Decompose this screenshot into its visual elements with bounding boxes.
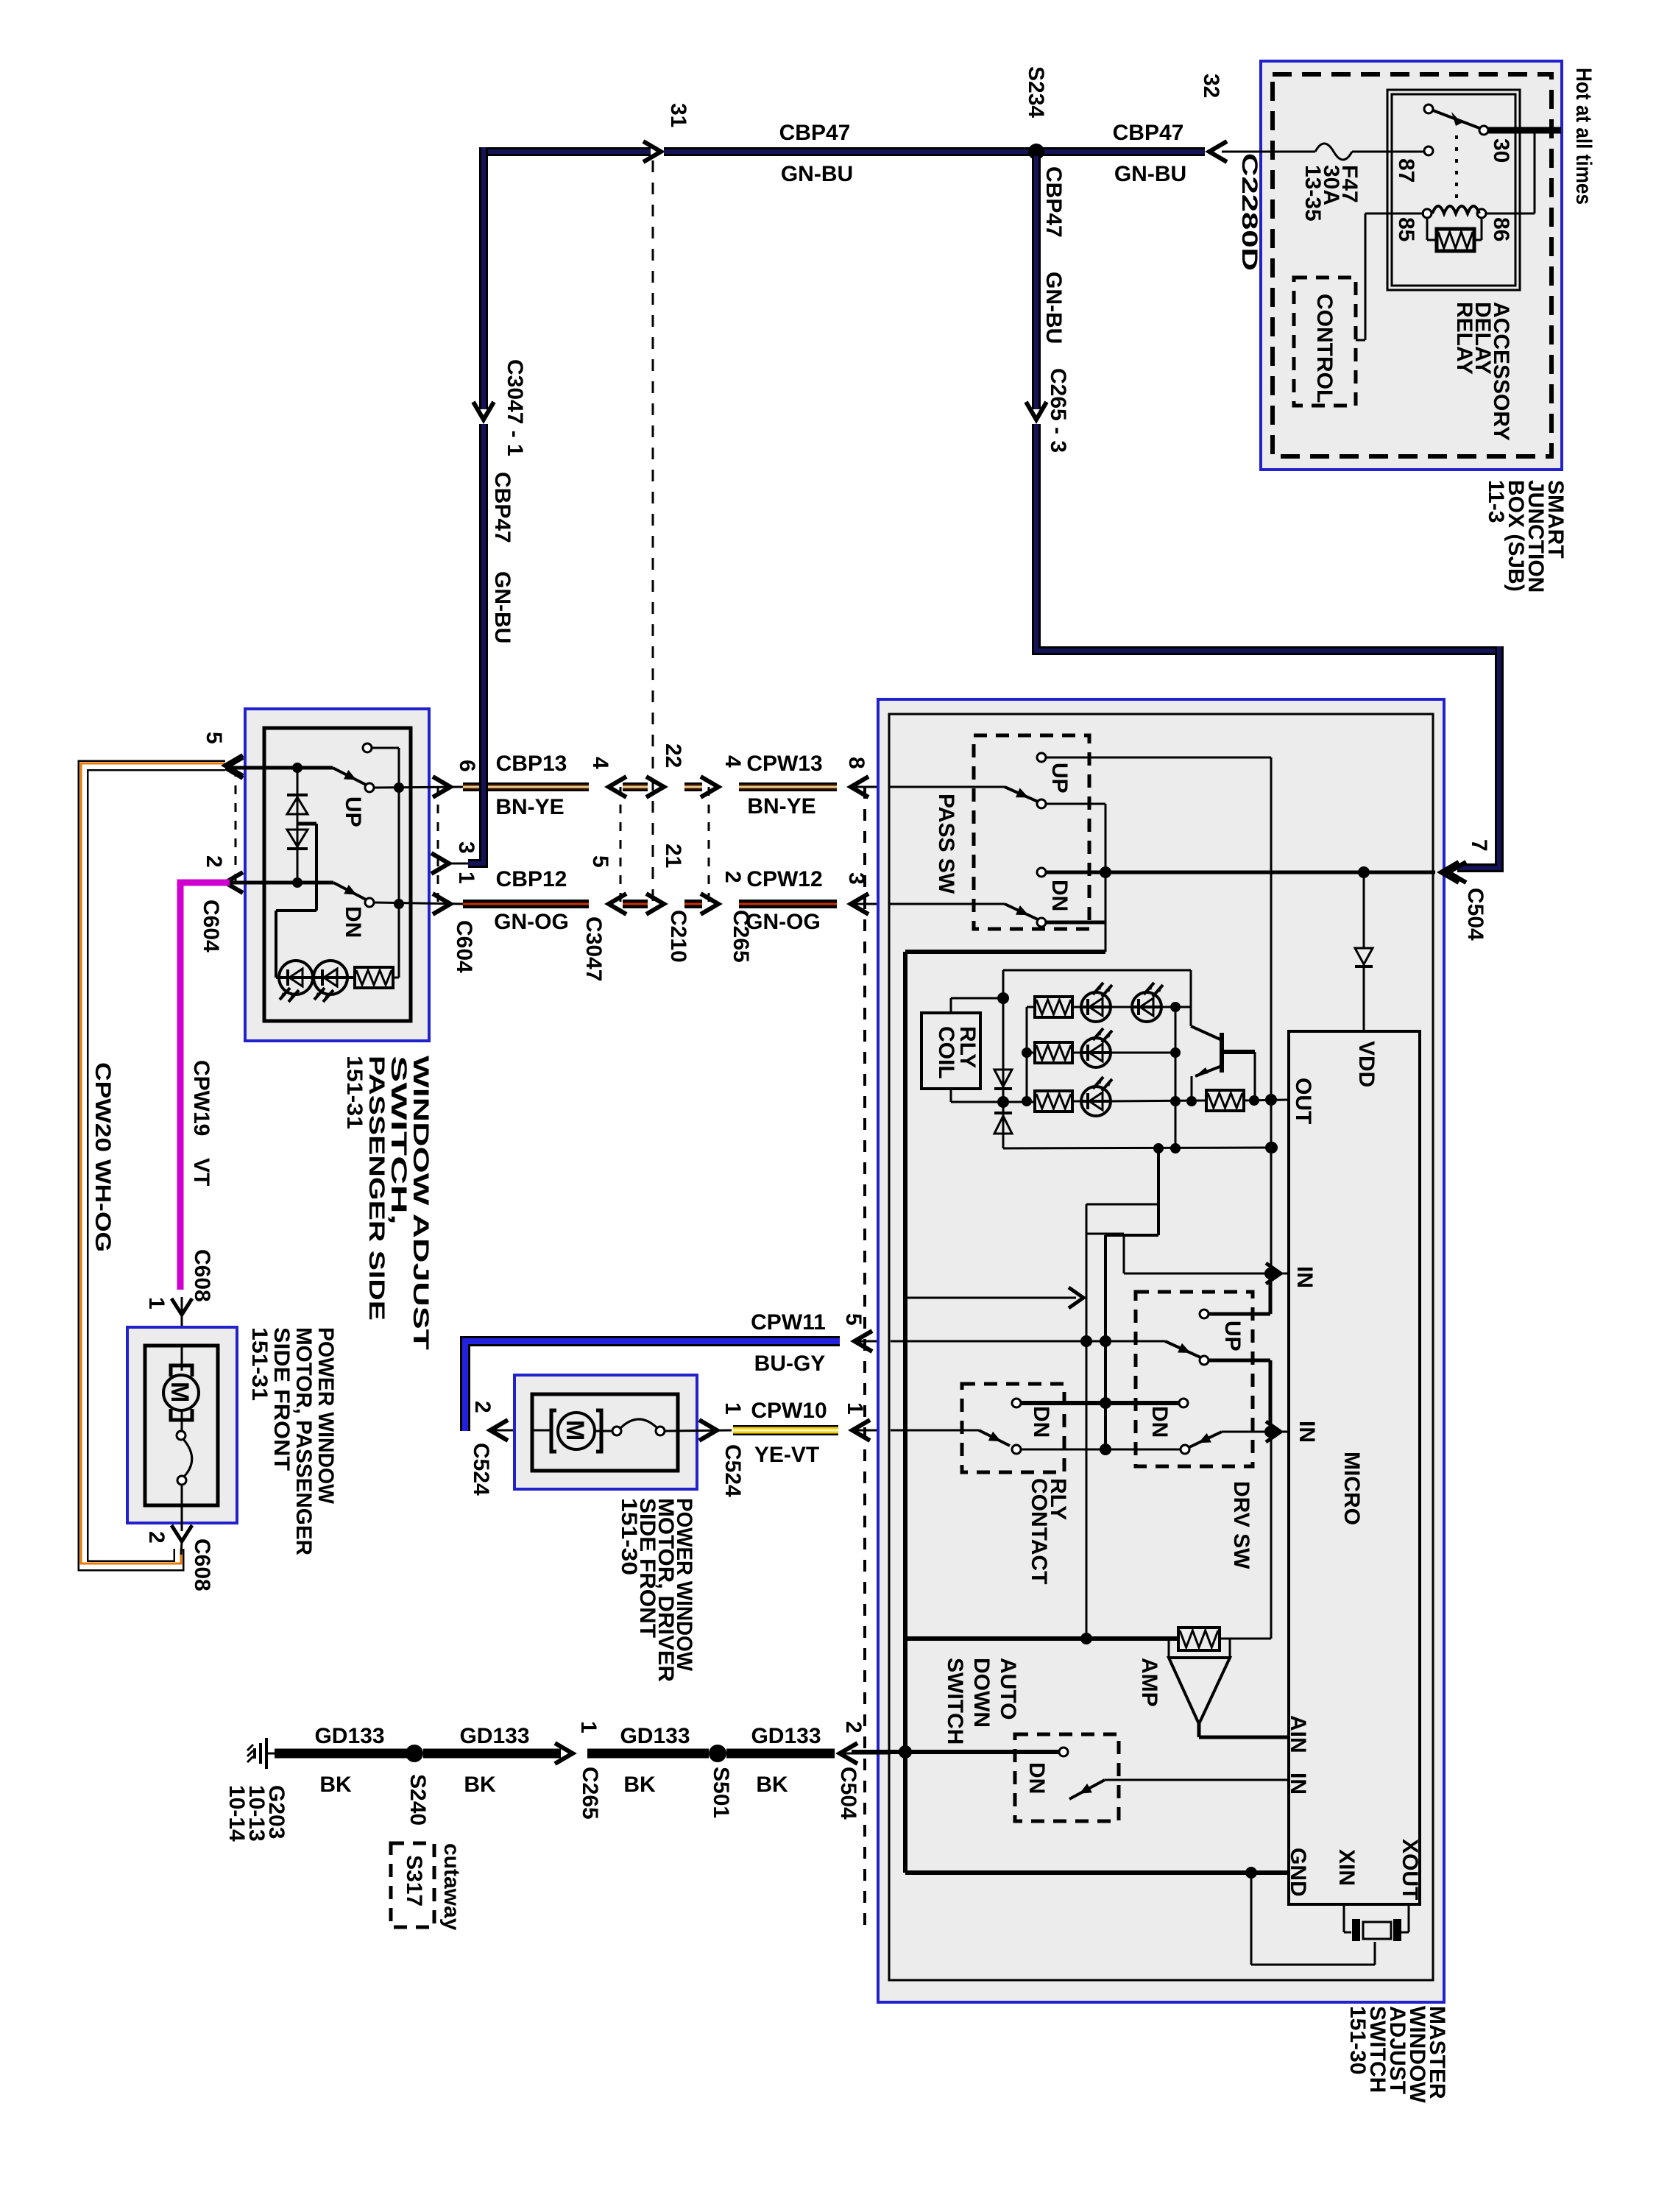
svg-text:CBP47: CBP47: [1041, 166, 1066, 238]
svg-text:8: 8: [844, 757, 868, 769]
svg-text:C504: C504: [836, 1767, 860, 1820]
svg-text:1: 1: [454, 872, 478, 884]
svg-text:GN-BU: GN-BU: [490, 571, 514, 643]
svg-text:C608: C608: [190, 1538, 214, 1591]
svg-text:C265: C265: [729, 910, 753, 963]
svg-text:C608: C608: [190, 1249, 214, 1302]
svg-text:C604: C604: [452, 920, 476, 973]
svg-text:87: 87: [1394, 158, 1418, 183]
svg-text:GND: GND: [1286, 1848, 1310, 1897]
svg-text:C2280D: C2280D: [1237, 153, 1262, 271]
svg-text:CBP47: CBP47: [1113, 121, 1184, 145]
svg-text:BK: BK: [623, 1773, 656, 1797]
svg-text:1: 1: [576, 1721, 601, 1734]
svg-text:3: 3: [454, 841, 478, 854]
svg-text:GD133: GD133: [314, 1724, 384, 1748]
svg-text:IN: IN: [1292, 1266, 1317, 1288]
svg-text:5: 5: [202, 732, 226, 744]
svg-text:DN: DN: [341, 906, 365, 938]
svg-text:32: 32: [1199, 74, 1223, 98]
svg-text:C604: C604: [199, 900, 223, 953]
svg-text:C265 - 3: C265 - 3: [1046, 368, 1070, 453]
svg-text:S317: S317: [402, 1855, 426, 1907]
svg-text:BU-GY: BU-GY: [754, 1351, 826, 1376]
svg-text:M: M: [561, 1420, 589, 1441]
svg-text:CPW20 WH-OG: CPW20 WH-OG: [91, 1062, 115, 1252]
svg-text:DN: DN: [1147, 1406, 1172, 1438]
svg-text:GN-OG: GN-OG: [494, 910, 569, 934]
svg-text:S234: S234: [1024, 66, 1048, 118]
svg-text:2: 2: [470, 1401, 495, 1413]
svg-text:5: 5: [841, 1313, 866, 1326]
svg-text:BN-YE: BN-YE: [495, 795, 564, 819]
svg-text:C3047: C3047: [581, 916, 606, 981]
svg-text:DN: DN: [1025, 1762, 1049, 1794]
svg-text:GD133: GD133: [459, 1724, 529, 1748]
svg-text:VT: VT: [189, 1158, 213, 1186]
svg-text:C265: C265: [578, 1767, 602, 1820]
svg-text:PASS SW: PASS SW: [934, 794, 958, 894]
svg-text:Hot at all times: Hot at all times: [1571, 68, 1596, 205]
svg-text:UP: UP: [1220, 1321, 1245, 1351]
svg-text:DN: DN: [1047, 880, 1072, 911]
svg-text:CPW10: CPW10: [751, 1399, 827, 1423]
svg-text:CPW12: CPW12: [746, 867, 822, 891]
svg-text:G203 10-13 10-14: G203 10-13 10-14: [224, 1785, 289, 1848]
svg-text:85: 85: [1394, 217, 1418, 241]
svg-text:CONTROL: CONTROL: [1312, 294, 1337, 403]
svg-text:C210: C210: [666, 910, 690, 963]
svg-text:CBP47: CBP47: [779, 121, 851, 145]
svg-text:AIN: AIN: [1286, 1715, 1310, 1753]
svg-text:2: 2: [202, 855, 226, 868]
svg-text:C504: C504: [1463, 888, 1487, 941]
svg-text:GN-BU: GN-BU: [781, 162, 853, 186]
svg-text:BK: BK: [464, 1773, 496, 1797]
svg-text:31: 31: [666, 103, 690, 127]
svg-text:S240: S240: [406, 1774, 430, 1826]
svg-text:6: 6: [455, 760, 479, 772]
svg-text:GN-OG: GN-OG: [746, 910, 821, 934]
svg-text:DRV SW: DRV SW: [1229, 1481, 1253, 1569]
svg-text:cutaway: cutaway: [439, 1843, 464, 1931]
svg-text:BK: BK: [319, 1773, 352, 1797]
svg-text:BN-YE: BN-YE: [747, 794, 815, 819]
svg-text:C524: C524: [469, 1443, 493, 1496]
svg-text:5: 5: [588, 855, 612, 868]
svg-text:DN: DN: [1029, 1406, 1053, 1438]
svg-text:GD133: GD133: [620, 1724, 690, 1748]
svg-text:2: 2: [721, 871, 745, 883]
svg-text:CBP13: CBP13: [496, 752, 567, 776]
svg-text:OUT: OUT: [1291, 1078, 1315, 1124]
svg-text:1: 1: [843, 1402, 867, 1415]
svg-text:CBP12: CBP12: [496, 867, 567, 891]
svg-text:CBP47: CBP47: [490, 472, 514, 543]
svg-text:XOUT: XOUT: [1398, 1839, 1422, 1900]
svg-text:CPW13: CPW13: [746, 752, 822, 776]
svg-text:VDD: VDD: [1354, 1041, 1379, 1087]
svg-text:IN: IN: [1295, 1421, 1319, 1443]
svg-text:GD133: GD133: [751, 1724, 821, 1748]
svg-text:UP: UP: [1047, 763, 1072, 794]
svg-text:UP: UP: [341, 796, 365, 827]
svg-text:7: 7: [1467, 839, 1491, 852]
svg-text:S501: S501: [709, 1767, 733, 1818]
svg-text:86: 86: [1489, 217, 1513, 241]
svg-text:YE-VT: YE-VT: [754, 1443, 819, 1467]
svg-text:XIN: XIN: [1334, 1849, 1359, 1886]
svg-text:1: 1: [721, 1402, 745, 1415]
svg-text:IN: IN: [1286, 1773, 1310, 1795]
svg-text:C524: C524: [721, 1444, 745, 1497]
svg-text:C3047 - 1: C3047 - 1: [503, 359, 527, 456]
svg-text:GN-BU: GN-BU: [1114, 162, 1186, 186]
svg-text:AMP: AMP: [1137, 1658, 1161, 1707]
svg-text:21: 21: [661, 844, 685, 868]
svg-text:1: 1: [144, 1297, 169, 1310]
svg-text:MICRO: MICRO: [1340, 1452, 1364, 1525]
svg-text:2: 2: [144, 1531, 169, 1544]
svg-text:4: 4: [721, 755, 745, 768]
svg-text:4: 4: [588, 757, 612, 769]
svg-text:RLY COIL: RLY COIL: [934, 1026, 980, 1079]
svg-text:CPW19: CPW19: [189, 1060, 213, 1136]
svg-text:30: 30: [1489, 138, 1513, 163]
svg-text:M: M: [166, 1382, 194, 1402]
svg-text:22: 22: [661, 743, 685, 768]
svg-text:GN-BU: GN-BU: [1041, 272, 1066, 344]
svg-text:BK: BK: [756, 1773, 788, 1797]
svg-text:2: 2: [841, 1721, 866, 1734]
svg-text:CPW11: CPW11: [751, 1310, 826, 1335]
